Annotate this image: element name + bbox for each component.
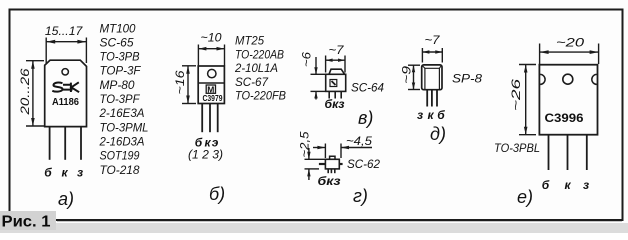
dim e width ext left (539, 44, 541, 65)
dim v height line bottom (315, 91, 317, 99)
pin e2 (567, 135, 569, 170)
dim g width arrows (317, 146, 349, 150)
svg-text:~7: ~7 (329, 43, 345, 57)
dim b width ext left (197, 45, 199, 66)
svg-text:бкз: бкз (325, 97, 345, 111)
svg-text:к: к (564, 178, 571, 192)
pin b3 (217, 104, 219, 133)
package d bevel right (439, 66, 441, 69)
package g tab (330, 156, 335, 159)
dim a height arrows (31, 61, 35, 126)
svg-text:б: б (44, 166, 52, 180)
dim d height arrows (412, 65, 415, 89)
dim v width ext right (344, 56, 346, 73)
svg-text:Рис. 1: Рис. 1 (2, 214, 51, 231)
dim v width ext left (325, 56, 327, 73)
svg-text:SOT199: SOT199 (100, 149, 140, 163)
svg-text:MT25: MT25 (235, 34, 264, 48)
svg-text:20...26: 20...26 (18, 68, 32, 116)
svg-text:~6: ~6 (300, 52, 314, 67)
dim a height line (32, 61, 34, 126)
svg-text:SP-8: SP-8 (452, 72, 482, 86)
pin d2 (431, 90, 433, 107)
svg-text:MT100: MT100 (100, 21, 136, 35)
type list b (234, 34, 286, 103)
dim g width line right (341, 147, 372, 149)
svg-text:A1186: A1186 (52, 96, 79, 108)
pin d3 (436, 90, 438, 107)
package a body (45, 60, 87, 126)
dim b height tick bottom (182, 103, 196, 105)
logo SK on package a (52, 82, 79, 92)
dim v width arrows (326, 59, 345, 62)
svg-text:~4,5: ~4,5 (346, 134, 372, 148)
package b hole (208, 69, 216, 77)
svg-text:TO-220AB: TO-220AB (235, 47, 284, 61)
dim d width arrows (422, 50, 442, 53)
svg-text:з: з (417, 108, 423, 122)
dim b height tick top (182, 65, 196, 67)
dim b width arrows (198, 47, 224, 51)
svg-text:SC-65: SC-65 (100, 35, 134, 49)
dim e height line (525, 65, 527, 135)
package v inner mark (330, 80, 337, 87)
dim v height ext bottom (311, 90, 326, 92)
pin e1 (548, 135, 550, 170)
dim g width line left (313, 147, 325, 149)
pin b1 (201, 104, 203, 133)
dim g height line bottom (308, 169, 310, 180)
svg-text:~10: ~10 (201, 31, 222, 45)
dim e width arrows (540, 50, 599, 54)
pin a3 (80, 127, 82, 160)
svg-text:MP-80: MP-80 (100, 78, 135, 92)
svg-text:TO-218: TO-218 (100, 163, 140, 177)
logo M box (206, 85, 215, 93)
package e body (539, 65, 597, 135)
svg-text:б): б) (209, 184, 225, 204)
package b outline (198, 66, 224, 104)
dim e height tick top (519, 64, 536, 66)
dim d height tick bottom (408, 89, 420, 91)
dim a width ext line right (85, 38, 87, 64)
dim e height arrows (524, 65, 528, 135)
package v body (326, 74, 346, 91)
dim a width arrows (46, 40, 86, 44)
dim v height line top (315, 57, 317, 74)
svg-text:е): е) (517, 187, 533, 207)
package b tab line (198, 82, 224, 84)
package v top bevel (329, 69, 345, 74)
svg-text:SC-67: SC-67 (235, 75, 269, 89)
dim a width ext line left (45, 38, 47, 64)
dim d width ext left (421, 48, 423, 63)
svg-text:2-16D3A: 2-16D3A (99, 135, 145, 149)
pin a2 (64, 127, 66, 160)
svg-text:~26: ~26 (509, 78, 523, 111)
package d inner face (425, 68, 440, 89)
pin e3 (586, 135, 588, 170)
svg-text:TO-3PML: TO-3PML (100, 120, 149, 134)
inner mark stroke (332, 81, 336, 85)
caption background box (0, 211, 56, 230)
package g lead down 2 (330, 169, 332, 173)
pin v1 (328, 91, 330, 98)
dim d width line (422, 51, 442, 53)
svg-text:~7: ~7 (425, 33, 441, 47)
svg-text:к: к (61, 166, 68, 180)
svg-text:г): г) (353, 186, 368, 206)
package g lead left (319, 163, 326, 165)
package g lead down 1 (327, 169, 329, 173)
svg-text:в): в) (358, 108, 373, 128)
svg-text:б: б (437, 108, 445, 122)
svg-text:TO-3PBL: TO-3PBL (494, 141, 540, 155)
dim d height line (413, 65, 415, 89)
dim b height arrows (186, 66, 190, 104)
svg-text:TO-3PF: TO-3PF (100, 92, 141, 106)
svg-text:~2,5: ~2,5 (298, 131, 312, 157)
svg-text:2-10L1A: 2-10L1A (234, 61, 278, 75)
dim v width line (326, 59, 345, 61)
dim b height line (187, 66, 189, 104)
svg-text:TO-220FB: TO-220FB (235, 89, 286, 103)
caption rule line (57, 219, 622, 221)
pin a1 (49, 127, 51, 160)
svg-text:з: з (77, 166, 83, 180)
svg-text:2-16E3A: 2-16E3A (99, 106, 145, 120)
dim g height arrows (307, 152, 310, 177)
package e corner notch right (592, 74, 597, 84)
svg-text:д): д) (430, 124, 446, 144)
type list a (99, 21, 149, 177)
dim v height ext top (311, 73, 326, 75)
svg-text:C3996: C3996 (545, 113, 584, 125)
dim b width ext right (224, 45, 226, 66)
svg-text:~20: ~20 (556, 36, 584, 50)
package d outer (422, 65, 442, 90)
svg-text:TO-3PB: TO-3PB (100, 50, 140, 64)
package a hole (62, 69, 68, 75)
dim a height tick top (26, 60, 44, 62)
svg-text:бкз: бкз (318, 174, 341, 188)
svg-text:TOP-3F: TOP-3F (100, 64, 142, 78)
dim b width line (198, 48, 224, 50)
svg-text:б: б (542, 178, 550, 192)
package g lead down 3 (334, 169, 336, 173)
package d bevel left (422, 66, 425, 69)
dim d height tick top (408, 64, 420, 66)
dim e height tick bottom (519, 134, 536, 136)
package e corner notch left (540, 74, 545, 84)
svg-text:з: з (583, 178, 589, 192)
svg-text:15...17: 15...17 (45, 24, 84, 38)
svg-text:к: к (427, 108, 434, 122)
dim e width line (540, 51, 599, 53)
svg-text:C3979: C3979 (203, 94, 223, 103)
svg-text:а): а) (58, 189, 74, 209)
dim g width ext left (324, 144, 326, 159)
svg-text:(1 2 3): (1 2 3) (188, 148, 223, 162)
dim a width line (46, 41, 86, 43)
dim g height ext top (305, 158, 326, 160)
svg-text:~9: ~9 (400, 66, 414, 84)
dim v height arrows (314, 67, 317, 98)
dim a height tick bottom (26, 125, 44, 127)
pin v3 (340, 91, 342, 98)
pin b2 (209, 104, 211, 133)
svg-text:SC-62: SC-62 (347, 157, 380, 171)
package g body (325, 159, 339, 169)
dim g height ext bottom (305, 168, 320, 170)
svg-text:~16: ~16 (173, 70, 187, 94)
package g lead right (339, 163, 342, 165)
dim g width ext right (340, 144, 342, 159)
dim g height line top (308, 148, 310, 159)
pin d1 (426, 90, 428, 107)
svg-text:M: M (207, 84, 214, 94)
package e hole (563, 74, 573, 84)
pin v2 (334, 91, 336, 98)
dim e width ext right (598, 44, 600, 65)
bottom gray strip (0, 223, 628, 233)
svg-text:SC-64: SC-64 (351, 81, 384, 95)
dim d width ext right (441, 48, 443, 63)
